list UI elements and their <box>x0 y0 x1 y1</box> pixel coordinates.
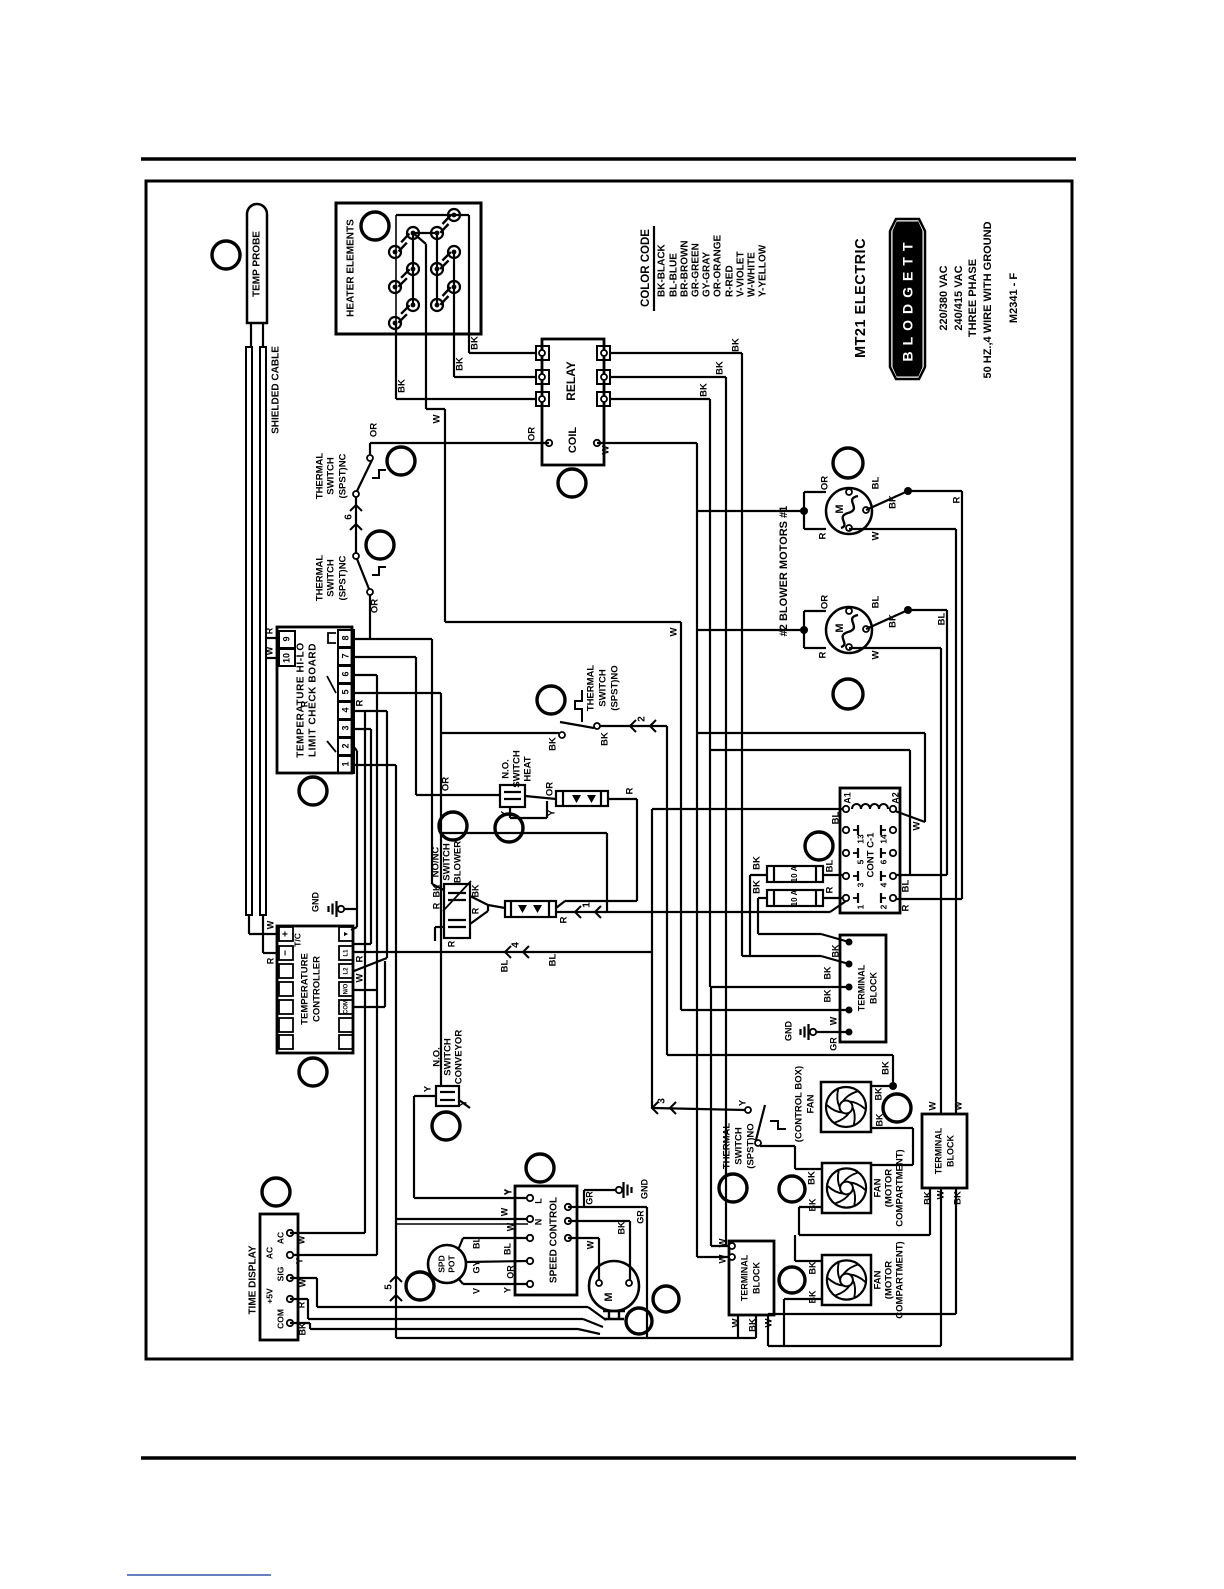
svg-text:COIL: COIL <box>567 427 579 454</box>
callout circle below conveyor switch <box>432 1112 460 1140</box>
callout circle left of blower switch <box>439 812 467 840</box>
svg-text:OR: OR <box>441 777 452 791</box>
svg-text:TEMPERATURE HI-LO: TEMPERATURE HI-LO <box>296 642 307 758</box>
svg-text:OR: OR <box>369 423 380 437</box>
temp probe <box>247 204 267 323</box>
callout circle above time display <box>262 1178 290 1206</box>
contactor CONT C-1 box <box>840 788 900 913</box>
wire W bus to middle terminal block 2 <box>697 1256 729 1258</box>
svg-text:Y-YELLOW: Y-YELLOW <box>758 244 769 297</box>
terminal block middle labels <box>718 1238 775 1331</box>
voltage spec text <box>938 221 994 378</box>
svg-text:BK: BK <box>600 732 611 746</box>
wire to controller COM <box>353 961 385 1007</box>
wire W motor1 to bus <box>849 529 956 1114</box>
wire BK bus to terminal 2 <box>742 944 849 964</box>
svg-text:2: 2 <box>340 743 350 748</box>
wire fan3 bottom to terminal block <box>768 1188 941 1346</box>
svg-text:OR: OR <box>545 782 556 796</box>
svg-text:W: W <box>432 414 443 423</box>
svg-text:5: 5 <box>384 1284 395 1290</box>
svg-text:V-VIOLET: V-VIOLET <box>736 251 747 297</box>
svg-text:BK: BK <box>616 1221 626 1234</box>
wire BK time display COM <box>290 1323 600 1334</box>
svg-text:W: W <box>871 650 882 659</box>
svg-text:THERMAL: THERMAL <box>315 555 326 602</box>
svg-text:GND: GND <box>310 892 320 913</box>
continuation arrow 4 <box>505 942 529 958</box>
svg-text:BK: BK <box>807 1171 818 1185</box>
svg-text:FAN: FAN <box>806 1094 817 1113</box>
relay terminals <box>536 346 610 446</box>
svg-text:1: 1 <box>582 902 593 908</box>
svg-text:R: R <box>296 1301 306 1308</box>
terminal block upper <box>840 935 886 1042</box>
svg-text:THERMAL: THERMAL <box>722 1123 733 1170</box>
heater element coils <box>398 215 451 323</box>
svg-text:AC: AC <box>275 1232 285 1244</box>
wire BK relay T3 to bus <box>610 383 710 987</box>
svg-text:(MOTOR: (MOTOR <box>884 1261 895 1299</box>
wire fan3 top to fan2 bottom wire <box>795 1235 822 1261</box>
svg-text:R: R <box>901 904 912 911</box>
svg-text:4: 4 <box>878 882 888 887</box>
wire BK fan1 to fan2 <box>871 1113 913 1165</box>
svg-text:RELAY: RELAY <box>564 361 578 401</box>
svg-text:SPD: SPD <box>436 1255 446 1272</box>
svg-text:BK: BK <box>699 383 710 397</box>
svg-text:BL: BL <box>500 959 511 972</box>
svg-text:M: M <box>834 623 846 632</box>
svg-text:W: W <box>871 531 882 540</box>
callout circle thermal switch 2 <box>366 531 394 559</box>
wire BK heater to relay T1 <box>469 215 536 353</box>
svg-text:BL: BL <box>825 859 836 872</box>
svg-text:N.O.: N.O. <box>501 759 512 779</box>
svg-text:Y: Y <box>423 1085 434 1092</box>
svg-text:(CONTROL BOX): (CONTROL BOX) <box>794 1066 805 1142</box>
heater internal wires <box>396 215 469 399</box>
svg-text:BK: BK <box>752 856 763 870</box>
svg-text:BLOWER: BLOWER <box>453 841 464 883</box>
svg-text:BL: BL <box>871 476 882 489</box>
svg-text:W: W <box>355 973 366 982</box>
svg-text:MT21 ELECTRIC: MT21 ELECTRIC <box>853 238 869 358</box>
fan 2 label <box>873 1149 906 1226</box>
svg-text:220/380 VAC: 220/380 VAC <box>938 265 950 330</box>
svg-text:R: R <box>559 916 570 923</box>
N.O. switch heat <box>500 750 534 807</box>
svg-text:HEAT: HEAT <box>523 756 534 781</box>
svg-text:W: W <box>499 1207 509 1216</box>
wire W bus to terminal 4 <box>681 622 849 1010</box>
svg-text:BK: BK <box>888 495 899 509</box>
svg-text:HEATER ELEMENTS: HEATER ELEMENTS <box>346 219 357 317</box>
svg-text:TEMP PROBE: TEMP PROBE <box>252 231 263 297</box>
svg-text:R: R <box>818 532 829 539</box>
wire BK thermal NO to board area <box>441 732 559 734</box>
callout circle thermal switch lower <box>719 1174 747 1202</box>
svg-text:BK: BK <box>874 1113 884 1126</box>
terminal block ground <box>783 1016 849 1051</box>
svg-text:SWITCH: SWITCH <box>598 669 609 707</box>
time display wire labels <box>294 1235 307 1335</box>
svg-text:GND: GND <box>783 1021 793 1042</box>
wire BL contactor pin4 <box>896 875 947 892</box>
svg-text:GR-GREEN: GR-GREEN <box>691 243 702 297</box>
callout circle thermal switch NO middle <box>537 686 565 714</box>
svg-text:OR: OR <box>527 427 538 441</box>
svg-text:6: 6 <box>340 671 350 676</box>
svg-text:BR-BROWN: BR-BROWN <box>680 240 691 297</box>
svg-text:BLOCK: BLOCK <box>945 1135 955 1167</box>
callout circle below board <box>299 777 327 805</box>
control box fan label <box>794 1066 817 1142</box>
svg-text:BK: BK <box>822 966 832 979</box>
svg-text:SWITCH: SWITCH <box>326 457 337 495</box>
svg-text:10 A: 10 A <box>790 889 799 906</box>
svg-text:▼: ▼ <box>343 931 350 938</box>
svg-text:OR: OR <box>820 476 831 490</box>
wire W speed control N <box>396 1219 528 1224</box>
heater elements box <box>336 203 481 334</box>
svg-text:4: 4 <box>511 942 522 948</box>
terminal block lower right <box>922 1114 967 1188</box>
svg-text:OR: OR <box>370 599 381 613</box>
svg-text:BL: BL <box>937 612 948 625</box>
svg-text:AC: AC <box>264 1247 274 1259</box>
svg-text:GR: GR <box>584 1191 594 1205</box>
wire fuse1 feed <box>750 875 767 956</box>
wire W coil bus <box>597 443 697 1257</box>
svg-text:BL: BL <box>871 595 882 608</box>
svg-text:M: M <box>834 504 846 513</box>
svg-text:THREE PHASE: THREE PHASE <box>967 259 979 337</box>
wire BK heater to relay T2 <box>454 287 536 377</box>
conveyor motor M <box>589 1261 639 1319</box>
wire pin8 to blower switch <box>354 639 444 890</box>
svg-text:8: 8 <box>340 635 350 640</box>
svg-text:10: 10 <box>281 653 291 663</box>
svg-text:LIMIT CHECK BOARD: LIMIT CHECK BOARD <box>308 643 319 757</box>
svg-text:SWITCH: SWITCH <box>443 1038 454 1076</box>
color code legend <box>640 226 769 311</box>
wire BL coil A1 <box>652 809 843 824</box>
wire 3 callout to thermal switch <box>653 1108 745 1110</box>
svg-text:BK: BK <box>881 1061 892 1075</box>
svg-text:Y: Y <box>738 1099 749 1106</box>
svg-text:BL: BL <box>831 811 842 824</box>
svg-text:L1: L1 <box>344 949 350 957</box>
callout circle below motor <box>626 1308 652 1334</box>
wire R cable to square 9 <box>264 627 279 638</box>
callout circle above speed control <box>526 1154 554 1182</box>
svg-text:THERMAL: THERMAL <box>586 665 597 712</box>
svg-text:(SPST)NO: (SPST)NO <box>746 1123 757 1168</box>
wire Y jog heat switch <box>500 801 558 818</box>
probe leads <box>251 322 263 347</box>
svg-text:(SPST)NC: (SPST)NC <box>338 453 349 498</box>
svg-text:BK: BK <box>873 1087 883 1100</box>
svg-text:W: W <box>828 1016 838 1025</box>
wire W cable to controller + <box>249 915 279 934</box>
svg-text:R: R <box>265 957 275 964</box>
svg-text:R: R <box>264 627 274 634</box>
wire middle terminal block bottom BK <box>755 1315 757 1338</box>
heater terminals <box>389 209 460 329</box>
wire BK thermal NO to fan branch <box>600 726 667 912</box>
svg-text:R: R <box>355 955 366 962</box>
wire pin5 to conveyor switch <box>354 693 441 1086</box>
speed pot <box>428 1245 466 1283</box>
svg-text:TIME DISPLAY: TIME DISPLAY <box>248 1245 259 1314</box>
fan 3 BK labels <box>807 1261 817 1303</box>
svg-text:BK: BK <box>715 361 726 375</box>
svg-text:BK: BK <box>830 944 840 957</box>
svg-text:FAN: FAN <box>873 1270 884 1289</box>
wire OR coil to thermal switch <box>369 423 549 455</box>
shielded cable <box>246 346 282 915</box>
svg-text:10 A: 10 A <box>790 865 799 882</box>
svg-text:W: W <box>936 1190 947 1199</box>
callout circle thermal switch 1 <box>387 447 415 475</box>
svg-text:Y: Y <box>502 1189 512 1195</box>
svg-text:14: 14 <box>878 834 888 844</box>
svg-text:R: R <box>446 940 456 947</box>
svg-text:BK: BK <box>807 1261 817 1274</box>
fan motor compartment upper <box>822 1163 871 1213</box>
svg-text:TERMINAL: TERMINAL <box>739 1254 749 1301</box>
svg-text:GR: GR <box>828 1037 838 1051</box>
svg-text:BK-BLACK: BK-BLACK <box>657 243 668 297</box>
wire R contactor pin2 to bus <box>896 899 962 911</box>
thermal switch SPST NO lower <box>722 1099 786 1169</box>
svg-text:W: W <box>912 821 923 830</box>
svg-text:COM: COM <box>275 1309 285 1329</box>
top rule <box>141 157 1076 161</box>
svg-text:SPEED CONTROL: SPEED CONTROL <box>549 1197 560 1283</box>
svg-text:BK: BK <box>731 338 742 352</box>
svg-text:W: W <box>296 1235 306 1244</box>
svg-text:3: 3 <box>855 882 865 887</box>
svg-text:BK: BK <box>822 989 832 1002</box>
continuation arrow 2 <box>630 716 656 732</box>
callout circle left of pot <box>406 1272 434 1300</box>
connector plug blower circuit <box>505 901 556 917</box>
svg-text:T/C: T/C <box>292 933 302 947</box>
svg-text:#2 BLOWER MOTORS #1: #2 BLOWER MOTORS #1 <box>778 506 790 637</box>
svg-text:240/415 VAC: 240/415 VAC <box>953 265 965 330</box>
svg-text:OR: OR <box>820 595 831 609</box>
callout circle below controller <box>299 1058 327 1086</box>
svg-text:BK: BK <box>548 737 559 751</box>
svg-text:N/O: N/O <box>344 983 350 994</box>
thermal switch SPST NC lower <box>315 553 386 601</box>
svg-text:COM: COM <box>344 1000 350 1014</box>
svg-text:W: W <box>264 646 274 655</box>
svg-text:W-WHITE: W-WHITE <box>747 252 758 297</box>
svg-text:9: 9 <box>281 636 291 641</box>
motor 1 centrifugal switch <box>866 487 912 510</box>
wire to continuation 6 <box>355 497 357 553</box>
svg-text:SWITCH: SWITCH <box>512 750 523 788</box>
wire pin6 down to time display <box>290 675 377 1255</box>
wire pin1 long run to bottom <box>354 765 756 1338</box>
wire OR thermal switch 2 to board pin 8 <box>370 595 381 639</box>
bottom rule <box>141 1456 1076 1460</box>
svg-text:BL: BL <box>471 1237 481 1249</box>
wire fan2 bottom to terminal block <box>799 1188 930 1235</box>
svg-text:CONTROLLER: CONTROLLER <box>312 956 323 1022</box>
svg-text:BK: BK <box>470 884 480 897</box>
svg-text:TERMINAL: TERMINAL <box>933 1127 943 1174</box>
svg-text:COMPARTMENT): COMPARTMENT) <box>895 1149 906 1226</box>
svg-text:(SPST)NC: (SPST)NC <box>338 555 349 600</box>
svg-text:R: R <box>431 902 441 909</box>
callout circle right of motor <box>653 1286 679 1312</box>
fan 3 label <box>873 1241 906 1318</box>
svg-text:SWITCH: SWITCH <box>734 1127 745 1165</box>
wire fuse2 feed <box>758 898 849 942</box>
callout circle below motor 2 <box>833 679 863 709</box>
callout circle below relay <box>558 469 586 497</box>
svg-text:NO/NC: NO/NC <box>431 847 442 878</box>
contactor contacts <box>843 825 896 909</box>
continuation arrow 5 <box>384 1276 402 1301</box>
svg-text:1: 1 <box>340 761 350 766</box>
svg-text:BK: BK <box>807 1198 817 1211</box>
svg-text:BL: BL <box>548 953 559 966</box>
wire W heater down <box>413 233 681 636</box>
wire BK relay T1 to bus <box>610 338 742 956</box>
svg-text:R: R <box>355 699 366 706</box>
svg-text:GY: GY <box>471 1260 481 1273</box>
svg-text:W: W <box>928 1101 939 1110</box>
svg-text:SHIELDED CABLE: SHIELDED CABLE <box>271 346 282 434</box>
svg-text:N.O.: N.O. <box>432 1047 443 1067</box>
wire middle terminal block bottom W <box>737 1315 739 1338</box>
relay box <box>542 339 604 465</box>
wire R cable to controller - <box>263 915 279 964</box>
svg-text:W: W <box>718 1254 729 1263</box>
fan 2 BK labels <box>807 1198 817 1211</box>
continuation arrow 1 <box>575 902 601 918</box>
time display box <box>248 1214 298 1340</box>
svg-text:N: N <box>533 1219 543 1226</box>
svg-text:GY-GRAY: GY-GRAY <box>702 251 713 297</box>
svg-text:BL: BL <box>502 1243 512 1255</box>
callout circle right of fan 1 <box>883 1094 911 1122</box>
wire conveyor switch to speed control L <box>414 1096 528 1198</box>
wire BK heater to relay T3 <box>396 323 536 399</box>
svg-text:COLOR CODE: COLOR CODE <box>640 229 652 307</box>
svg-text:GR: GR <box>635 1210 645 1224</box>
svg-text:BLOCK: BLOCK <box>868 972 878 1004</box>
svg-text:Y: Y <box>547 809 558 816</box>
svg-text:L: L <box>533 1198 543 1204</box>
svg-text:BK: BK <box>455 357 466 371</box>
blower motor 1 <box>697 476 882 541</box>
wire pin2 to controller <box>351 747 357 930</box>
fuse 10A upper <box>752 856 836 882</box>
svg-text:R: R <box>825 886 836 893</box>
svg-text:R: R <box>470 907 480 914</box>
temperature hi-lo limit check board <box>277 627 354 773</box>
wire heat switch to connector <box>525 782 556 799</box>
svg-text:SIG: SIG <box>275 1266 285 1281</box>
svg-text:SWITCH: SWITCH <box>326 559 337 597</box>
svg-text:R: R <box>299 700 309 707</box>
svg-text:TERMINAL: TERMINAL <box>856 964 866 1011</box>
svg-text:BL-BLUE: BL-BLUE <box>669 253 680 297</box>
svg-text:13: 13 <box>855 834 865 844</box>
svg-text:CONVEYOR: CONVEYOR <box>454 1030 465 1085</box>
wire unknown y833 <box>441 833 607 913</box>
svg-text:2: 2 <box>878 904 888 909</box>
svg-text:+: + <box>281 931 292 937</box>
svg-text:4: 4 <box>340 707 350 712</box>
wire R connector to blower connector <box>556 787 637 908</box>
wire blower switch to connector 1 <box>470 896 505 924</box>
pot wires <box>458 1237 528 1295</box>
svg-text:R: R <box>818 651 829 658</box>
wire thermal switch to fan 2 <box>760 1146 822 1185</box>
speed control left labels <box>499 1189 515 1293</box>
svg-text:W: W <box>954 1101 965 1110</box>
callout circle left of fan 3 <box>779 1267 805 1293</box>
svg-text:A2: A2 <box>890 792 900 804</box>
svg-text:CONT C-1: CONT C-1 <box>866 832 877 878</box>
continuation arrow 3 <box>652 1098 676 1114</box>
svg-text:BL: BL <box>901 879 912 892</box>
wire fuse2 to contactor pin1 <box>823 897 843 899</box>
svg-text:3: 3 <box>657 1098 668 1104</box>
callout circle near temp probe <box>212 241 240 269</box>
contactor coil A1 A2 <box>842 792 900 812</box>
svg-text:BK: BK <box>752 880 763 894</box>
svg-text:BK: BK <box>431 884 441 897</box>
callout circle above motor 1 <box>833 448 863 478</box>
svg-text:FAN: FAN <box>873 1178 884 1197</box>
control box fan <box>821 1082 871 1132</box>
svg-text:Y: Y <box>502 1287 512 1293</box>
svg-text:BK: BK <box>923 1191 934 1205</box>
wire to controller N/O <box>353 989 377 991</box>
svg-text:TEMPERATURE: TEMPERATURE <box>300 953 311 1025</box>
wire R time display +5V <box>290 1299 603 1327</box>
wire W cable to square 10 <box>264 646 279 658</box>
svg-text:BLODGETT: BLODGETT <box>900 237 916 362</box>
svg-text:R-RED: R-RED <box>725 265 736 297</box>
svg-text:OR: OR <box>505 1265 515 1279</box>
wire GR speed control down <box>584 1207 647 1338</box>
wire W time display SIG <box>290 1278 606 1320</box>
wire BK bus to contactor pin4 side <box>710 750 910 875</box>
svg-text:R: R <box>952 496 963 503</box>
wire W bus to middle terminal block 1 <box>711 987 729 1246</box>
svg-text:Y: Y <box>294 1258 304 1264</box>
svg-text:7: 7 <box>340 653 350 658</box>
terminal block bottom middle <box>729 1241 774 1315</box>
blower motor 2 <box>697 595 882 660</box>
svg-text:W: W <box>601 445 612 454</box>
wire middle terminal block bottom W right <box>767 1315 769 1346</box>
thermal switch SPST NC upper <box>315 453 386 500</box>
BLODGETT badge <box>890 219 925 379</box>
wire BK right terminal block down <box>768 1188 956 1314</box>
svg-text:Y: Y <box>500 810 511 817</box>
svg-text:V: V <box>471 1288 481 1294</box>
